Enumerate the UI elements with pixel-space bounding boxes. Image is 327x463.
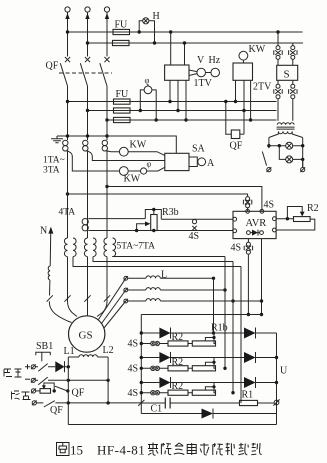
svg-text:3TA: 3TA bbox=[43, 166, 60, 176]
diode V row1 left bbox=[159, 328, 170, 339]
5TA secondary route to block bbox=[73, 257, 241, 267]
connector 4S row2 bbox=[151, 366, 160, 370]
GS harmonic winding fan to L lines bbox=[99, 278, 126, 328]
kilowatt meter KW row3 bbox=[119, 167, 128, 176]
field winding L1-L2 coil bbox=[68, 356, 79, 358]
svg-text:SB1: SB1 bbox=[36, 341, 53, 352]
2TV leg to bus1 mid bbox=[235, 80, 237, 101]
current transformer 6TA bbox=[84, 238, 96, 257]
AVR terminal top 2 bbox=[260, 209, 264, 213]
svg-text:A: A bbox=[207, 158, 215, 169]
2TV leg to bus3 mid bbox=[250, 80, 252, 120]
AVR terminal right 1 bbox=[273, 217, 277, 221]
current transformer 7TA bbox=[104, 238, 116, 257]
svg-text:GS: GS bbox=[79, 330, 93, 342]
rectifier block left rail bbox=[140, 315, 142, 414]
row 2 lower wire bbox=[141, 358, 215, 369]
pole 3 wire breaker to CT bbox=[106, 86, 108, 140]
neutral into GS bbox=[49, 301, 71, 322]
transformer 2TV box bbox=[233, 63, 253, 80]
breaker QF pole 1 contact bbox=[60, 57, 70, 86]
S plug upper-right (from bus2) bbox=[289, 43, 297, 65]
brush slash N bbox=[47, 295, 53, 301]
pole 1 wire CT to 5TA bbox=[67, 151, 69, 238]
1TV tap to bus1 top bbox=[170, 32, 172, 65]
pushbutton SB1 linkage bbox=[36, 352, 51, 361]
1TV leg to bus2 mid bbox=[177, 80, 179, 110]
lamp circuit terminal (right) bbox=[300, 159, 305, 172]
fuse FU on bus3 mid bbox=[114, 117, 131, 122]
resistor R1b section row3 with tap bbox=[192, 390, 215, 395]
row 3 lower wire bbox=[141, 383, 215, 393]
svg-text:4S: 4S bbox=[231, 243, 242, 254]
harmonic line 2 with reactor coil bbox=[128, 289, 146, 291]
breaker QF pole 3 contact bbox=[100, 57, 110, 86]
svg-text:4S: 4S bbox=[128, 339, 139, 350]
svg-text:15: 15 bbox=[70, 443, 83, 458]
diode V1 (start) bbox=[55, 361, 68, 372]
rheostat R3b bracket bbox=[145, 210, 233, 220]
AVR bottom drop 1 with connector 4S bbox=[244, 239, 252, 317]
right field rail bbox=[107, 357, 109, 403]
diode V bottom bbox=[202, 409, 214, 419]
pole 1 wire breaker to CT bbox=[67, 86, 69, 140]
svg-text:AVR: AVR bbox=[246, 218, 267, 229]
terminal on L line 2 bbox=[124, 288, 128, 292]
2TA secondary exit wire bbox=[87, 151, 165, 161]
QF trip coil box bbox=[231, 130, 240, 139]
R2 wiper arm bbox=[287, 207, 302, 219]
bottom return wire bbox=[68, 424, 276, 426]
link slash at block rail bbox=[138, 400, 144, 406]
trunk wire A harmonic line1 to row 1 bbox=[213, 278, 215, 333]
resistor R2 row2 bbox=[168, 366, 188, 371]
svg-text:4S: 4S bbox=[189, 231, 200, 242]
ammeter A bbox=[198, 158, 206, 166]
plus sign bbox=[25, 364, 30, 369]
AVR terminal right 2 bbox=[273, 228, 277, 232]
supply terminal L1 phase bbox=[65, 7, 70, 57]
QF aux contact (bottom row) bbox=[36, 401, 141, 407]
resistor R1 bbox=[240, 400, 258, 405]
1TV leg to bus1 mid bbox=[169, 80, 171, 101]
ammeter selector SA box bbox=[165, 153, 189, 170]
resistor R2 row1 bbox=[168, 341, 188, 346]
lamp switch terminal (left) bbox=[267, 167, 272, 172]
svg-text:HF-4-81: HF-4-81 bbox=[97, 443, 145, 458]
lamp loop right rail bbox=[302, 138, 304, 169]
harmonic line 1 with reactor coil bbox=[128, 277, 146, 279]
svg-text:S: S bbox=[284, 69, 290, 81]
pole 3 wire to GS bbox=[97, 257, 107, 317]
1TA secondary exit wire bbox=[67, 151, 120, 171]
pole 1 wire to GS with brush gap bbox=[68, 257, 78, 317]
svg-text:4S: 4S bbox=[264, 200, 275, 211]
connector 4S above AVR bbox=[243, 197, 251, 212]
label junya (equalize) bbox=[12, 391, 31, 400]
frequency meter Hz bbox=[206, 72, 211, 74]
R3b wiper arrow bbox=[137, 224, 147, 231]
wire pole1 to AVR sensing (upper) bbox=[68, 194, 248, 197]
kilowatt meter KW (top) bbox=[242, 60, 244, 63]
svg-text:KW: KW bbox=[249, 44, 266, 55]
CT secondary common line to SA bbox=[57, 136, 176, 153]
rectifier block top wire bbox=[141, 314, 261, 316]
equalize resistor bbox=[36, 390, 40, 392]
start terminal - bbox=[31, 378, 36, 383]
svg-text:R2: R2 bbox=[307, 203, 319, 214]
row 2 upper wire bbox=[141, 357, 276, 359]
indicator lamp row 1 bbox=[269, 145, 303, 147]
diode V row2 left bbox=[159, 352, 170, 363]
trunk wire B to row 2 bbox=[224, 257, 226, 369]
brush slash pole3 bbox=[104, 295, 110, 301]
lamp H bbox=[143, 18, 149, 24]
start terminal + bbox=[31, 364, 36, 369]
AVR box bbox=[233, 211, 276, 238]
rheostat R2 wire from AVR bbox=[276, 218, 293, 220]
fuse FU on bus2 bbox=[113, 40, 130, 45]
secondary bracket bbox=[269, 132, 303, 138]
current transformer 1TA bbox=[63, 134, 70, 151]
minus sign bbox=[25, 378, 30, 380]
svg-text:L2: L2 bbox=[103, 345, 114, 356]
svg-text:Hz: Hz bbox=[209, 55, 221, 66]
R2 return wire bbox=[276, 219, 315, 230]
resistor R2 row3 bbox=[168, 390, 188, 395]
SB1 start contact blade bbox=[35, 364, 55, 372]
diode V row2 right bbox=[244, 352, 256, 363]
AVR terminal top 1 bbox=[246, 209, 250, 213]
svg-text:H: H bbox=[153, 11, 160, 22]
svg-text:SA: SA bbox=[192, 144, 206, 155]
generator GS bbox=[69, 316, 105, 352]
diode V row3 right bbox=[244, 377, 256, 388]
connector 4S row1 bbox=[151, 341, 160, 345]
svg-text:V: V bbox=[197, 55, 205, 66]
svg-text:1TA~: 1TA~ bbox=[43, 156, 65, 166]
AVR bottom drop 2 bbox=[261, 239, 263, 315]
current transformer 2TA bbox=[83, 134, 90, 151]
AVR terminal left 2 bbox=[233, 229, 237, 233]
QF aux contact (equalize row) bbox=[55, 386, 66, 390]
label start (qidong) bbox=[4, 369, 22, 377]
breaker QF pole 2 contact bbox=[80, 57, 90, 86]
current transformer 4TA bbox=[82, 219, 88, 231]
AVR terminal left 1 bbox=[233, 217, 237, 221]
indicator lamp row 2 bbox=[279, 146, 302, 160]
QF trip coil left lead bbox=[226, 102, 232, 135]
junction pole2/bus2 bbox=[86, 41, 89, 44]
bottom terminal bbox=[32, 401, 37, 406]
wire row1 to SA bbox=[128, 152, 165, 156]
voltmeter V bbox=[189, 70, 197, 76]
link terminal on U rail bbox=[273, 399, 279, 405]
svg-text:4S: 4S bbox=[128, 364, 139, 375]
svg-text:R1b: R1b bbox=[211, 323, 228, 334]
power factor meter phi bbox=[139, 75, 158, 122]
svg-text:4S: 4S bbox=[128, 388, 139, 399]
trunk wire D to R1 line bbox=[240, 267, 242, 404]
equalize terminal bbox=[31, 389, 36, 394]
ground symbol bbox=[51, 136, 63, 143]
phase meter circle bbox=[141, 168, 147, 174]
current transformer 5TA bbox=[64, 238, 76, 257]
control lamp transformer primary winding bbox=[277, 123, 294, 125]
capacitor C1 plates bbox=[165, 398, 170, 409]
breaker QF linkage (dashed) bbox=[59, 72, 112, 74]
terminal on L line 1 bbox=[124, 276, 128, 280]
bus line 2 mid (y=110.5) bbox=[88, 110, 277, 112]
3TA secondary exit wire bbox=[106, 151, 119, 152]
1TV tap to bus2 top bbox=[184, 43, 186, 65]
brush slash pole1 bbox=[64, 295, 70, 301]
svg-text:φ: φ bbox=[145, 75, 150, 85]
AVR internal diode with terminals bbox=[247, 230, 264, 236]
S plug lower-left bbox=[274, 80, 282, 121]
fuse FU on bus2 mid bbox=[114, 108, 131, 113]
bus line 2 top (y=43) bbox=[88, 42, 304, 44]
bus line 3 mid (y=120) bbox=[107, 119, 277, 121]
svg-text:L: L bbox=[161, 270, 167, 281]
resistor R1b section row2 with tap bbox=[192, 366, 215, 371]
lamp transformer secondary winding bbox=[278, 131, 292, 133]
4TA secondary upper wire bbox=[88, 218, 145, 220]
bus line 1 mid (y=101.5) bbox=[68, 101, 277, 103]
pole 2 wire to GS bbox=[87, 257, 89, 316]
fuse FU on bus1 mid bbox=[114, 99, 131, 104]
resistor R1b row1 with tap bbox=[192, 341, 215, 346]
S plug lower-right bbox=[289, 80, 297, 121]
bus line 1 top (y=32) bbox=[68, 31, 303, 33]
svg-text:R3b: R3b bbox=[162, 207, 179, 218]
row 1 upper wire bbox=[141, 332, 276, 334]
connector 4S row3 bbox=[151, 391, 160, 395]
svg-text:C1: C1 bbox=[151, 404, 163, 415]
transformer 1TV box bbox=[165, 65, 189, 80]
diode V row1 right bbox=[244, 328, 256, 339]
SB1 stop contact blade bbox=[35, 377, 108, 385]
lamp H leads bbox=[139, 21, 154, 43]
equalize resistor shorting arm with arrow bbox=[44, 383, 54, 391]
kilowatt meter KW row1 bbox=[119, 147, 128, 156]
junction pole1/bus1 bbox=[66, 30, 69, 33]
caption series text (CJK) bbox=[148, 443, 262, 456]
neutral line winding bbox=[48, 266, 50, 280]
rheostat R2 body bbox=[294, 217, 311, 222]
left field rail bbox=[67, 357, 69, 425]
rheostat R3b body bbox=[151, 215, 157, 231]
wire row3 segments bbox=[72, 167, 165, 171]
trunk wire C to row 3 bbox=[232, 262, 234, 393]
svg-text:KW: KW bbox=[130, 140, 147, 151]
switch S box bbox=[277, 65, 298, 80]
harmonic line 3 with reactor coil bbox=[128, 300, 146, 302]
diode V row3 left bbox=[159, 377, 170, 388]
terminal on L line 3 bbox=[124, 299, 128, 303]
wire pole3 to AVR sensing (lower) bbox=[107, 187, 262, 212]
svg-text:FU: FU bbox=[116, 89, 130, 100]
6TA secondary route to block bbox=[93, 257, 233, 262]
svg-text:2TV: 2TV bbox=[253, 82, 272, 93]
row 1 lower wire bbox=[141, 333, 215, 344]
svg-text:QF: QF bbox=[230, 141, 243, 152]
rectifier right rail (U bus) bbox=[276, 333, 278, 425]
svg-text:φ: φ bbox=[147, 160, 152, 169]
2TV leg / QF trip lead to bus2 mid bbox=[243, 80, 245, 134]
svg-text:QF: QF bbox=[72, 388, 85, 399]
fuse FU on bus1 bbox=[113, 29, 130, 34]
svg-text:5TA~7TA: 5TA~7TA bbox=[117, 242, 156, 252]
7TA secondary route to block bbox=[113, 256, 226, 258]
lamp loop left rail bbox=[268, 138, 270, 149]
S plug upper-left (from bus1) bbox=[274, 30, 282, 65]
QF trip coil right lead bbox=[240, 133, 244, 135]
supply terminal L2 phase bbox=[85, 7, 90, 57]
svg-text:R1: R1 bbox=[242, 390, 254, 401]
capacitor C1 / R1 line bbox=[141, 402, 273, 404]
row 3 upper wire bbox=[141, 382, 276, 384]
caption figure number bbox=[57, 443, 70, 456]
bottom diode line bbox=[141, 413, 276, 415]
transformer core bbox=[277, 127, 295, 129]
current transformer 3TA bbox=[102, 134, 109, 151]
pole 2 wire (4TA section) bbox=[87, 151, 89, 238]
4TA secondary lower wire bbox=[88, 230, 233, 232]
neutral wire N with arrow bbox=[50, 228, 51, 296]
brush slash pole2 bbox=[84, 295, 90, 301]
svg-text:QF: QF bbox=[46, 61, 59, 72]
supply terminal L3 phase bbox=[104, 7, 109, 57]
svg-text:1TV: 1TV bbox=[194, 78, 213, 89]
ammeter bracket bbox=[189, 157, 198, 167]
1TV leg to bus3 mid bbox=[185, 80, 187, 120]
svg-text:QF: QF bbox=[50, 405, 63, 416]
pole 3 wire CT to 7TA bbox=[106, 151, 108, 238]
svg-text:4TA: 4TA bbox=[59, 208, 76, 218]
svg-text:N: N bbox=[40, 226, 47, 237]
svg-text:L1: L1 bbox=[64, 346, 75, 357]
connector 4S on 4TA lines bbox=[192, 220, 196, 231]
svg-text:U: U bbox=[280, 366, 288, 377]
pole 2 wire breaker to CT bbox=[87, 86, 89, 140]
lamp test switch blade bbox=[262, 152, 266, 166]
